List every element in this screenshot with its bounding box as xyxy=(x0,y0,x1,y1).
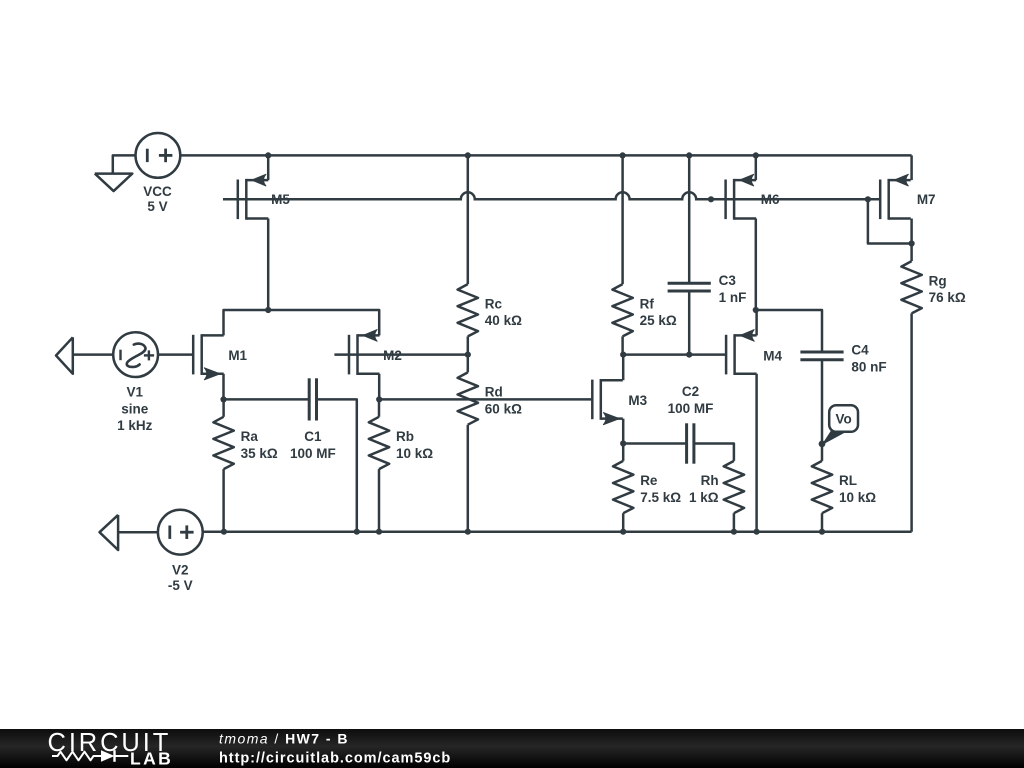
svg-text:VCC: VCC xyxy=(143,184,172,199)
svg-text:1 kHz: 1 kHz xyxy=(117,418,153,433)
svg-text:5 V: 5 V xyxy=(147,199,167,214)
label C1 100 MF xyxy=(290,429,336,461)
junction dot M1 source / Ra node xyxy=(220,396,226,402)
resistor Ra xyxy=(213,417,233,469)
wire Re top lead xyxy=(622,444,625,461)
node Vo (probe callout) xyxy=(823,405,858,444)
wire C2 to Rh xyxy=(694,444,734,461)
wire M7 gate-drain tie xyxy=(868,199,912,243)
svg-text:Rb: Rb xyxy=(396,429,414,444)
wire M4 drain down to bottom rail xyxy=(755,374,758,532)
label Rf 25 kOhm xyxy=(640,296,677,328)
wire M1 source down to Ra node xyxy=(222,374,225,400)
label Rd 60 kOhm xyxy=(485,385,522,417)
wire M7 drain down to Rg node xyxy=(910,219,913,244)
svg-text:-5 V: -5 V xyxy=(168,578,193,593)
resistor Rc xyxy=(458,284,478,336)
junction dot Rf / M3 drain node xyxy=(620,352,626,358)
svg-text:C4: C4 xyxy=(851,343,869,358)
footer url xyxy=(219,751,451,767)
wire M6 source to VCC rail xyxy=(755,155,758,180)
wire M2 drain down to Rb node xyxy=(378,374,381,400)
svg-text:RL: RL xyxy=(839,473,857,488)
wire M6 drain node to C4 xyxy=(756,310,822,352)
capacitor C1 xyxy=(309,378,316,420)
svg-text:Rd: Rd xyxy=(485,385,503,400)
junction dot M7 drain node xyxy=(909,240,915,246)
wire Rc to Rd node xyxy=(467,336,470,354)
svg-text:Ra: Ra xyxy=(241,429,259,444)
wire M3 source node to C2 xyxy=(623,442,686,445)
transistor M6 (PMOS) xyxy=(726,174,757,219)
label Ra 35 kOhm xyxy=(241,429,278,461)
junction dot gate bus at M6 gate xyxy=(708,196,714,202)
svg-text:35 kΩ: 35 kΩ xyxy=(241,446,278,461)
svg-text:10 kΩ: 10 kΩ xyxy=(396,446,433,461)
wire VCC rail down to Rf xyxy=(621,155,624,284)
label M5 xyxy=(271,192,290,207)
wire Rf to M3 drain node xyxy=(621,336,624,354)
junction dot C3 at M4 gate wire xyxy=(686,352,692,358)
svg-text:M1: M1 xyxy=(228,348,247,363)
junction dot Rc-Rd-M2gate node xyxy=(465,352,471,358)
ground (at V2 negative terminal) xyxy=(100,515,158,550)
junction dot M5 drain at row xyxy=(265,307,271,313)
svg-text:M4: M4 xyxy=(763,348,782,363)
voltage source V1 sine 1 kHz xyxy=(113,332,158,377)
wire Ra to bottom rail xyxy=(222,469,225,532)
label Rg 76 kOhm xyxy=(929,273,966,305)
capacitor C3 xyxy=(668,283,711,291)
svg-text:Rg: Rg xyxy=(929,273,947,288)
svg-text:V1: V1 xyxy=(127,385,144,400)
label C4 80 nF xyxy=(851,343,886,375)
svg-text:V2: V2 xyxy=(172,563,189,578)
resistor Rg xyxy=(901,261,921,313)
wire Rb top lead xyxy=(378,399,381,416)
label M2 xyxy=(383,348,402,363)
wire M3 drain node to M4 gate xyxy=(623,353,726,356)
svg-text:Re: Re xyxy=(640,473,658,488)
label Rb 10 kOhm xyxy=(396,429,433,461)
svg-text:sine: sine xyxy=(121,401,149,416)
CircuitLab logo text LAB xyxy=(130,749,173,768)
svg-text:Vo: Vo xyxy=(835,411,851,426)
wire C1 to bottom rail (bypass leg) xyxy=(317,399,357,531)
wire Vo node to RL xyxy=(821,444,824,461)
wire V1+ to M1 gate xyxy=(158,353,193,356)
wire Re to bottom rail xyxy=(622,513,625,532)
svg-text:C3: C3 xyxy=(719,273,737,288)
wire Rc-Rd node to Rd xyxy=(467,355,470,373)
wire M6 drain down to M4 source node xyxy=(755,219,758,311)
wire bottom rail (V2+ net) xyxy=(203,530,912,533)
transistor M1 (NMOS) xyxy=(193,334,224,380)
wire Rg top lead xyxy=(910,244,913,262)
svg-text:http://circuitlab.com/cam59cb: http://circuitlab.com/cam59cb xyxy=(219,751,451,767)
svg-text:60 kΩ: 60 kΩ xyxy=(485,401,522,416)
ground (at V1 negative terminal) xyxy=(56,337,113,374)
footer bar xyxy=(0,729,1024,768)
svg-text:7.5 kΩ: 7.5 kΩ xyxy=(640,490,681,505)
label VCC 5 V xyxy=(143,184,172,214)
junction dots on VCC top rail xyxy=(265,152,759,158)
label RL 10 kOhm xyxy=(839,473,876,505)
wire M3 drain up to Rf node xyxy=(622,355,625,381)
CircuitLab logo glyph (resistor + diode) xyxy=(52,750,128,762)
CircuitLab logo text CIRCUIT xyxy=(48,729,172,757)
resistor Re xyxy=(613,461,633,513)
label C2 100 MF xyxy=(668,384,714,416)
wire C4 to Vo node xyxy=(821,360,824,444)
label M3 xyxy=(628,393,647,408)
footer title tmoma / HW7 - B xyxy=(219,731,349,747)
label Rc 40 kOhm xyxy=(485,296,522,328)
svg-text:76 kΩ: 76 kΩ xyxy=(929,290,966,305)
resistor Rh xyxy=(724,461,744,513)
wire M3 source down to Re node xyxy=(622,419,625,444)
wire M2 gate to Rc-Rd node xyxy=(334,353,467,356)
label M7 xyxy=(917,192,936,207)
wire M5 source to VCC rail xyxy=(267,155,270,180)
junction dot M3 source / Re node xyxy=(620,440,626,446)
transistor M7 (PMOS) xyxy=(880,174,911,219)
svg-text:Rc: Rc xyxy=(485,296,503,311)
svg-text:LAB: LAB xyxy=(130,749,173,768)
wire M2 drain node to M3 gate (crosses Rd) xyxy=(379,398,592,401)
junction dot Vo node xyxy=(819,441,826,448)
resistor Rb xyxy=(369,417,389,469)
wire M4 source up to M6 drain node xyxy=(755,310,758,335)
label C3 1 nF xyxy=(719,273,747,305)
svg-text:C2: C2 xyxy=(682,384,699,399)
label M1 xyxy=(228,348,247,363)
wire VCC+ to top rail xyxy=(180,154,268,157)
wire M1 source node to C1 xyxy=(224,398,310,401)
transistor M2 (PMOS) xyxy=(349,330,380,375)
resistor Rd xyxy=(458,372,478,424)
label M6 xyxy=(761,192,780,207)
svg-text:10 kΩ: 10 kΩ xyxy=(839,490,876,505)
wire VCC rail down to Rc xyxy=(467,155,470,284)
wire M5 drain down to M1 drain row xyxy=(267,219,270,311)
svg-text:M7: M7 xyxy=(917,192,936,207)
wire VCC top rail xyxy=(268,154,911,157)
wire gate bus M5-M6-M7 (with crossover hops) xyxy=(223,192,880,199)
svg-text:1 kΩ: 1 kΩ xyxy=(689,490,719,505)
voltage source VCC 5 V xyxy=(136,133,181,178)
voltage source V2 -5 V xyxy=(158,510,203,555)
junction dot M6 drain / M4 source / C4 node xyxy=(753,307,759,313)
junction dots on bottom rail xyxy=(221,529,825,535)
junction dot M2 drain / Rb node xyxy=(376,396,382,402)
svg-text:M6: M6 xyxy=(761,192,780,207)
wire VCC rail down to C3 xyxy=(688,155,691,283)
label Re 7.5 kOhm xyxy=(640,473,681,505)
label V2 -5 V xyxy=(168,563,193,593)
wire M1 drain row to M2 source xyxy=(224,310,380,335)
wire Rh to bottom rail xyxy=(733,513,736,532)
svg-text:Rf: Rf xyxy=(640,296,655,311)
transistor M3 (NMOS) xyxy=(592,379,623,425)
svg-text:C1: C1 xyxy=(304,429,322,444)
label M4 xyxy=(763,348,782,363)
svg-text:40 kΩ: 40 kΩ xyxy=(485,313,522,328)
resistor RL xyxy=(812,461,832,513)
label Rh 1 kOhm xyxy=(689,473,719,505)
svg-text:80 nF: 80 nF xyxy=(851,359,886,374)
svg-text:25 kΩ: 25 kΩ xyxy=(640,313,677,328)
resistor Rf xyxy=(612,284,632,336)
wire C3 to M4 gate node xyxy=(688,291,691,355)
wire Ra top lead xyxy=(222,399,225,416)
capacitor C4 xyxy=(800,352,843,360)
wire Rg down right edge to bottom rail xyxy=(910,313,913,531)
svg-text:M3: M3 xyxy=(628,393,647,408)
wire Rd to bottom rail xyxy=(467,425,470,532)
svg-text:M5: M5 xyxy=(271,192,290,207)
junction dot gate bus at M7 gate xyxy=(865,196,871,202)
svg-text:Rh: Rh xyxy=(701,473,719,488)
wire Rb to bottom rail xyxy=(378,469,381,532)
transistor M4 (PMOS) xyxy=(726,330,757,375)
label V1 sine 1 kHz xyxy=(117,385,153,434)
svg-text:1 nF: 1 nF xyxy=(719,290,747,305)
ground (at VCC negative terminal) xyxy=(95,155,135,191)
svg-text:100 MF: 100 MF xyxy=(668,401,714,416)
wire M7 source to VCC rail corner xyxy=(910,155,913,180)
svg-text:100 MF: 100 MF xyxy=(290,446,336,461)
transistor M5 (PMOS) xyxy=(238,174,268,219)
wire RL to bottom rail xyxy=(821,513,824,532)
svg-text:tmoma / HW7 - B: tmoma / HW7 - B xyxy=(219,731,349,747)
capacitor C2 xyxy=(687,423,694,463)
